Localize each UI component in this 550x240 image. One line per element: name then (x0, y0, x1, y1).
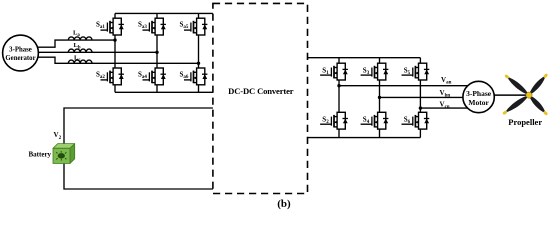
transistor S1 (MOSFET with body diode) (320, 58, 348, 86)
DC-DC converter block (dashed boundary) (213, 3, 308, 193)
wire DC bottom rail (rectifier negative bus) (115, 91, 213, 93)
wire DC top rail (rectifier positive bus) (115, 12, 213, 14)
svg-text:Battery: Battery (29, 151, 52, 159)
generator G1 (3-phase generator) (3, 35, 39, 71)
transistor Sa3 (MOSFET with body diode) (143, 13, 166, 52)
inductor Lb (68, 49, 92, 52)
battery cell icon (56, 151, 66, 161)
wire battery negative lead (battery to converter) (64, 164, 213, 190)
battery B1 (green 3-D block) (53, 144, 75, 164)
transistor Sa1 (MOSFET with body diode) (101, 13, 124, 40)
wire battery positive lead (battery to converter) (64, 108, 213, 148)
wire phase c (inverter to motor) (420, 107, 468, 109)
propeller blade upper-right (529, 76, 546, 95)
propeller blade tip (lower-right) (543, 110, 548, 116)
propeller blade lower-left (505, 95, 529, 113)
propeller blade lower-right (529, 95, 546, 113)
wire phase a (generator to inductor) (34, 40, 68, 47)
inductor Lc (68, 60, 92, 63)
transistor Sa4 (MOSFET with body diode) (143, 52, 166, 92)
svg-text:Motor: Motor (468, 98, 489, 107)
wire phase b (inverter to motor) (380, 96, 469, 98)
propeller blade tip (upper-right) (543, 73, 548, 79)
propeller hub (526, 92, 532, 98)
motor M1 (3-phase motor) (463, 81, 494, 112)
node phase b midpoint (left bridge leg 2) (155, 51, 158, 54)
transistor S2 (MOSFET with body diode) (320, 86, 348, 138)
wire phase a (inverter to motor) (339, 85, 468, 87)
wire phase c (inductor to bridge leg 3) (92, 62, 199, 64)
svg-text:DC-DC Converter: DC-DC Converter (228, 86, 294, 96)
svg-text:3-Phase: 3-Phase (466, 89, 492, 98)
transistor S4 (MOSFET with body diode) (361, 97, 389, 137)
transistor Sa2 (MOSFET with body diode) (101, 40, 124, 92)
inductor La (68, 37, 92, 40)
node phase c midpoint (left bridge leg 3) (197, 62, 200, 65)
wire DC top rail (inverter positive bus) (308, 57, 421, 59)
svg-text:Generator: Generator (5, 55, 35, 62)
node phase a midpoint (left bridge leg 1) (113, 38, 116, 41)
wire phase b (inductor to bridge leg 2) (92, 51, 157, 53)
wire phase b (generator to inductor) (34, 51, 68, 53)
transistor S6 (MOSFET with body diode) (402, 108, 430, 138)
wire DC bottom rail (inverter negative bus) (308, 137, 421, 139)
propeller blade tip (upper-left) (504, 74, 510, 79)
wire motor shaft (490, 94, 529, 96)
propeller blade tip (lower-left) (502, 110, 508, 115)
node phase a midpoint (right bridge leg 1) (337, 84, 340, 87)
transistor Sa6 (MOSFET with body diode) (184, 63, 207, 92)
transistor S3 (MOSFET with body diode) (361, 58, 389, 98)
wire phase a (inductor to bridge leg 1) (92, 39, 115, 41)
node phase c midpoint (right bridge leg 3) (419, 106, 422, 109)
transistor Sa5 (MOSFET with body diode) (184, 13, 207, 63)
node phase b midpoint (right bridge leg 2) (378, 96, 381, 99)
svg-text:3-Phase: 3-Phase (9, 46, 32, 53)
propeller blade upper-left (507, 77, 529, 96)
wire phase c (generator to inductor) (34, 57, 68, 63)
svg-text:Propeller: Propeller (508, 117, 542, 127)
svg-text:(b): (b) (277, 198, 291, 210)
transistor S5 (MOSFET with body diode) (402, 58, 430, 108)
